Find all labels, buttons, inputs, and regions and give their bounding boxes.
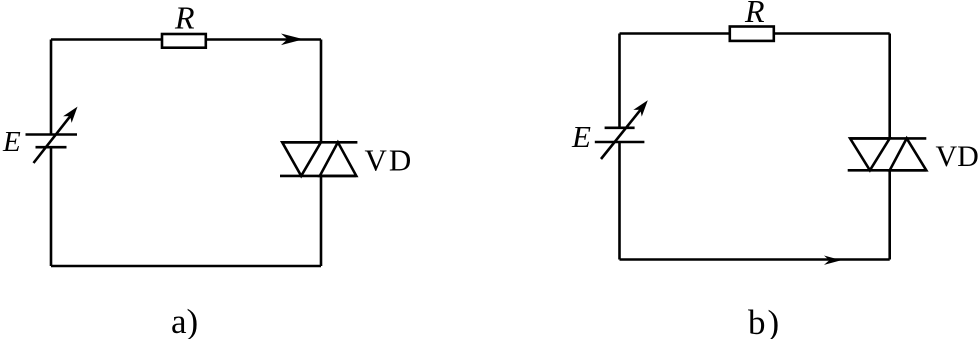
source E (b) variability arrow head <box>633 97 652 117</box>
diac VD (a) top bar <box>282 141 357 144</box>
wire left upper (a) <box>50 40 53 135</box>
svg-text:E: E <box>2 126 21 158</box>
svg-text:a): a) <box>171 302 198 339</box>
diac VD (b) left triangle <box>850 138 890 170</box>
source E (a) variability arrow shaft <box>34 111 75 163</box>
source E (b) long plate <box>595 141 645 144</box>
diac VD (b) bottom bar <box>848 169 927 172</box>
wire left upper (b) <box>618 34 621 128</box>
wire left lower (b) <box>618 142 621 260</box>
source E (a) short plate <box>36 146 67 149</box>
current arrow (a, top wire) <box>281 34 304 46</box>
source E (b) variability arrow shaft <box>601 105 644 159</box>
svg-text:b): b) <box>748 303 781 339</box>
resistor R (b) <box>730 27 774 41</box>
wire top-left (b) <box>620 32 729 35</box>
wire right upper (b) <box>888 34 891 139</box>
svg-text:VD: VD <box>936 140 978 173</box>
wire bottom (b) <box>620 258 890 261</box>
svg-text:E: E <box>571 119 591 154</box>
wire right upper (a) <box>320 40 323 143</box>
current arrow (b, bottom wire) <box>824 256 841 265</box>
wire left lower (a) <box>50 147 53 266</box>
diac VD (a) right triangle <box>320 142 357 176</box>
svg-text:R: R <box>744 0 765 29</box>
wire right lower (a) <box>320 176 323 266</box>
source E (a) long plate <box>26 133 78 136</box>
diac VD (a) left triangle <box>282 142 321 176</box>
diac VD (a) bottom bar <box>280 175 356 178</box>
diac VD (b) right triangle <box>890 138 927 170</box>
wire right lower (b) <box>888 170 891 259</box>
wire top-right (a) <box>207 38 321 41</box>
resistor R (a) <box>162 34 206 48</box>
source E (b) short plate <box>605 127 635 130</box>
wire bottom (a) <box>51 265 321 268</box>
wire top-left (a) <box>51 38 161 41</box>
svg-text:VD: VD <box>365 143 414 178</box>
diac VD (b) top bar <box>850 137 926 140</box>
svg-text:R: R <box>174 0 195 36</box>
wire top-right (b) <box>775 32 890 35</box>
source E (a) variability arrow head <box>63 103 82 123</box>
